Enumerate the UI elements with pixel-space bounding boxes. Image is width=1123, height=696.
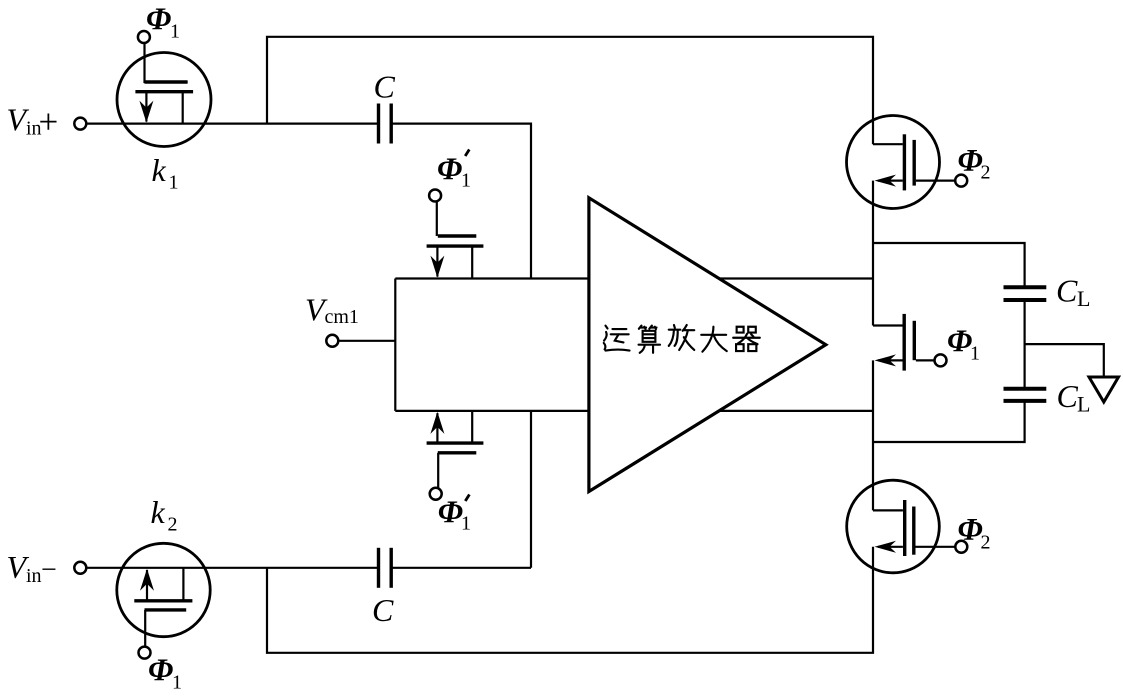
svg-text:1: 1: [461, 170, 471, 192]
wire cap C bottom to x531: [391, 567, 531, 569]
label phi2 top-right: [958, 142, 991, 184]
wire CL middle vertical: [1023, 300, 1025, 388]
terminal phi1 k2: [139, 647, 151, 659]
svg-text:2: 2: [981, 531, 991, 553]
glyph qi: [733, 327, 760, 351]
transistor phi1p bottom: [427, 411, 484, 488]
terminal Vcm1: [326, 335, 338, 347]
arrow source k1: [139, 101, 153, 123]
wire op-amp bottom input: [395, 410, 873, 412]
wire Vcm1 box left: [394, 279, 396, 411]
terminal phi1p bottom: [430, 488, 442, 500]
svg-text:Φ: Φ: [958, 511, 983, 547]
wire op-amp top input: [395, 277, 873, 279]
label Vcm1: [305, 292, 359, 329]
terminal phi2 top: [955, 175, 967, 187]
svg-text:1: 1: [461, 513, 471, 535]
svg-text:Φ: Φ: [958, 142, 983, 178]
terminal Vin-: [74, 562, 86, 574]
label phi2 bottom-right: [958, 511, 991, 553]
svg-text:1: 1: [970, 343, 980, 365]
svg-text:k: k: [151, 494, 166, 530]
ground: [1089, 377, 1119, 402]
glyph da: [701, 327, 727, 352]
svg-text:Φ: Φ: [947, 323, 972, 359]
svg-text:L: L: [1077, 391, 1090, 416]
label k2: [151, 494, 178, 536]
label CL bottom: [1057, 378, 1091, 417]
label phi1 mid-right: [947, 323, 980, 365]
wire bottom CL branch: [873, 401, 1025, 442]
svg-text:k: k: [152, 152, 167, 188]
capacitor CL top: [1004, 287, 1047, 300]
svg-text:C: C: [1057, 378, 1079, 414]
svg-text:−: −: [41, 555, 57, 586]
wire cap C top to down corner: [391, 124, 531, 279]
wire bottom rail: [267, 547, 873, 653]
wire Vin+ line: [86, 122, 378, 124]
wire right rail upper-mid segment: [872, 181, 874, 326]
label phi1p top: [437, 150, 471, 192]
glyph fang: [669, 325, 695, 350]
svg-text:C: C: [372, 592, 394, 628]
label k1: [152, 152, 179, 194]
terminal phi1 mid: [935, 354, 947, 366]
svg-text:Φ: Φ: [437, 151, 462, 187]
label phi1p bottom: [438, 493, 471, 534]
transistor phi1p top: [427, 201, 484, 278]
terminal Vin+: [74, 118, 86, 130]
wire to ground: [1025, 344, 1104, 377]
arrow source M phi2 top: [875, 175, 897, 187]
wire Vcm1 stub: [338, 340, 395, 342]
svg-text:Φ: Φ: [148, 651, 173, 687]
wire x531 bottom vertical: [530, 411, 532, 568]
arrow source M phi1 mid: [875, 354, 897, 366]
svg-text:1: 1: [169, 172, 179, 194]
svg-text:2: 2: [981, 162, 991, 184]
label phi1 top-left: [146, 0, 180, 42]
op-amp U1 triangle: [589, 198, 826, 492]
svg-text:C: C: [374, 68, 396, 104]
terminal phi2 bottom: [955, 541, 967, 553]
svg-text:+: +: [39, 103, 59, 142]
arrow source M phi2 bottom: [875, 541, 897, 553]
svg-text:Φ: Φ: [146, 0, 171, 36]
glyph suan: [639, 326, 660, 353]
svg-text:C: C: [1056, 273, 1078, 309]
transistor M phi2 top: [847, 116, 956, 209]
wire right rail lower-mid segment: [872, 360, 874, 510]
wire top rail: [267, 37, 873, 144]
arrow source phi1p top: [430, 256, 444, 278]
glyph yun: [604, 326, 630, 351]
terminal phi1p top: [429, 190, 441, 202]
arrow source k2: [140, 569, 154, 591]
terminal phi1 k1: [138, 31, 150, 43]
wire top CL branch: [873, 243, 1025, 287]
arrow source phi1p bottom: [430, 412, 444, 434]
op-amp label 运算放大器 (drawn glyphs): [604, 325, 760, 353]
svg-text:L: L: [1077, 286, 1090, 311]
svg-text:in: in: [26, 565, 42, 587]
transistor M phi1 mid: [873, 314, 935, 371]
label CL top: [1056, 273, 1090, 312]
transistor k1: [117, 43, 211, 147]
svg-text:cm1: cm1: [325, 306, 359, 328]
wire Vin- line: [86, 567, 378, 569]
label phi1 bottom-left: [148, 651, 182, 693]
capacitor C top: [379, 104, 392, 144]
capacitor CL bottom: [1004, 389, 1047, 401]
transistor k2: [117, 543, 210, 646]
svg-text:1: 1: [172, 672, 182, 692]
label Vin+: [7, 102, 59, 142]
capacitor C bottom: [379, 548, 392, 588]
label Vin-: [7, 549, 57, 587]
svg-text:1: 1: [170, 21, 180, 43]
svg-text:2: 2: [168, 514, 178, 536]
transistor M phi2 bottom: [847, 480, 956, 573]
svg-text:Φ: Φ: [438, 493, 463, 529]
